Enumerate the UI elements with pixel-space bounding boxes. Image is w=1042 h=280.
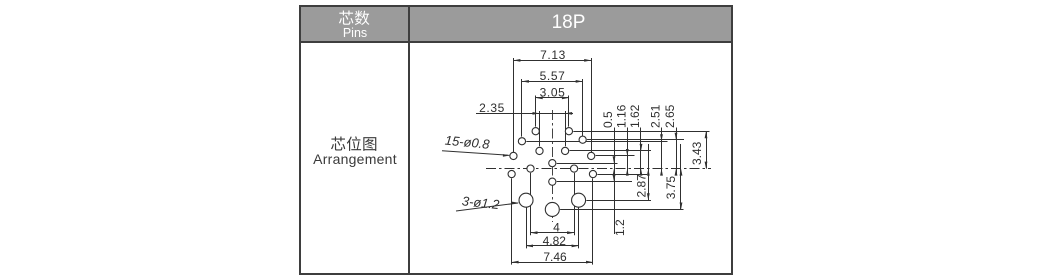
svg-text:1.2: 1.2 xyxy=(613,219,627,236)
svg-text:4: 4 xyxy=(553,221,560,235)
svg-text:5.57: 5.57 xyxy=(540,69,566,83)
svg-text:1.62: 1.62 xyxy=(628,104,642,128)
svg-text:3.75: 3.75 xyxy=(664,176,678,200)
svg-text:3.05: 3.05 xyxy=(540,85,566,99)
svg-text:4.82: 4.82 xyxy=(543,234,567,248)
svg-text:1.16: 1.16 xyxy=(614,104,628,128)
svg-text:0.5: 0.5 xyxy=(601,111,615,128)
svg-text:7.46: 7.46 xyxy=(543,250,567,264)
svg-text:3.43: 3.43 xyxy=(690,141,704,165)
svg-text:2.87: 2.87 xyxy=(635,174,649,198)
svg-text:2.51: 2.51 xyxy=(649,104,663,128)
svg-text:7.13: 7.13 xyxy=(540,48,566,62)
svg-text:2.65: 2.65 xyxy=(663,104,677,128)
svg-text:2.35: 2.35 xyxy=(479,101,505,115)
svg-text:15-ø0.8: 15-ø0.8 xyxy=(444,133,491,152)
